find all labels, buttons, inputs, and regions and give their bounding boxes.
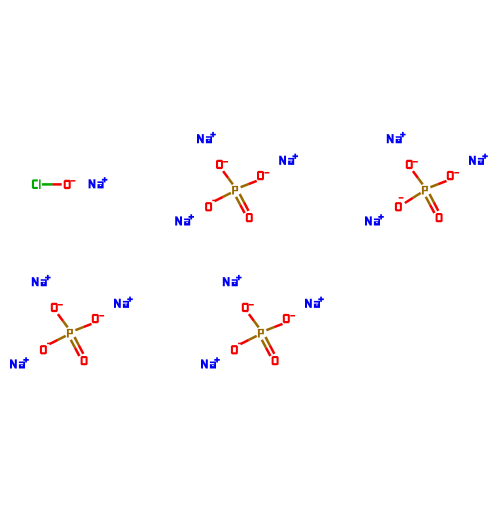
phosphate 2: O atom label (double-bonded, lower-right): [436, 213, 443, 222]
phosphate 1: single bond P to O(lower-left): [215, 193, 231, 201]
phosphate 2: P atom label: [422, 186, 428, 195]
phosphate 4: O atom label (double-bonded, lower-right): [272, 356, 279, 365]
phosphate 1: Na+ counter-ion (lower-left): [175, 214, 194, 225]
phosphate 3: Na+ counter-ion (top-left): [32, 275, 51, 286]
hypochlorite: single bond Cl to O: [42, 183, 62, 186]
phosphate 4: single bond P to O(right): [266, 324, 282, 330]
phosphate 3: O- atom label (right): [92, 314, 104, 323]
hypochlorite: Cl atom label: [32, 179, 41, 189]
phosphate 2: O- atom label (top): [406, 160, 418, 169]
phosphate 3: single bond P to O(top): [58, 314, 68, 327]
phosphate 4: O- atom label (top): [242, 303, 254, 312]
phosphate 1: Na+ counter-ion (top-left): [197, 132, 216, 143]
phosphate 4: O- atom label (right): [283, 314, 295, 323]
hypochlorite: Na+ counter-ion: [89, 177, 108, 188]
phosphate 2: single bond P to O(right): [430, 181, 446, 187]
phosphate 3: O- atom label (lower-left): [40, 343, 52, 355]
phosphate 2: Na+ counter-ion (right): [469, 154, 488, 165]
phosphate 4: P atom label: [258, 329, 264, 338]
phosphate 1: single bond P to O(right): [241, 181, 257, 187]
phosphate 1: P atom label: [232, 186, 238, 195]
phosphate 4: Na+ counter-ion (top-left): [223, 275, 242, 286]
phosphate 3: double bond P=O (lower-right): [71, 337, 84, 356]
phosphate 2: Na+ counter-ion (lower-left): [365, 214, 384, 225]
phosphate 3: single bond P to O(right): [75, 324, 91, 330]
phosphate 1: double bond P=O (lower-right): [236, 194, 249, 213]
phosphate 2: single bond P to O(lower-left): [405, 193, 421, 203]
phosphate 1: O- atom label (lower-left): [205, 200, 217, 212]
phosphate 3: P atom label: [67, 329, 73, 338]
hypochlorite: O- atom label: [64, 180, 76, 189]
phosphate 2: O- atom label (lower-left): [395, 197, 404, 211]
phosphate 3: Na+ counter-ion (lower-left): [10, 357, 29, 368]
phosphate 4: Na+ counter-ion (right): [305, 297, 324, 308]
phosphate 4: single bond P to O(top): [249, 314, 259, 327]
phosphate 1: O- atom label (right): [257, 171, 269, 180]
phosphate 1: single bond P to O(top): [223, 171, 233, 184]
phosphate 4: double bond P=O (lower-right): [262, 337, 275, 356]
phosphate 2: single bond P to O(top): [413, 171, 423, 184]
phosphate 3: single bond P to O(lower-left): [49, 336, 65, 344]
phosphate 3: O- atom label (top): [51, 303, 63, 312]
phosphate 1: Na+ counter-ion (right): [279, 154, 298, 165]
phosphate 2: O- atom label (right): [447, 171, 459, 180]
phosphate 4: Na+ counter-ion (lower-left): [201, 357, 220, 368]
phosphate 1: O atom label (double-bonded, lower-right): [246, 213, 253, 222]
phosphate 4: O- atom label (lower-left): [231, 343, 243, 355]
phosphate 2: Na+ counter-ion (top-left): [387, 132, 406, 143]
phosphate 3: O atom label (double-bonded, lower-right): [81, 356, 88, 365]
phosphate 3: Na+ counter-ion (right): [114, 297, 133, 308]
phosphate 1: O- atom label (top): [216, 160, 228, 169]
phosphate 2: double bond P=O (lower-right): [426, 194, 439, 213]
phosphate 4: single bond P to O(lower-left): [240, 336, 256, 344]
